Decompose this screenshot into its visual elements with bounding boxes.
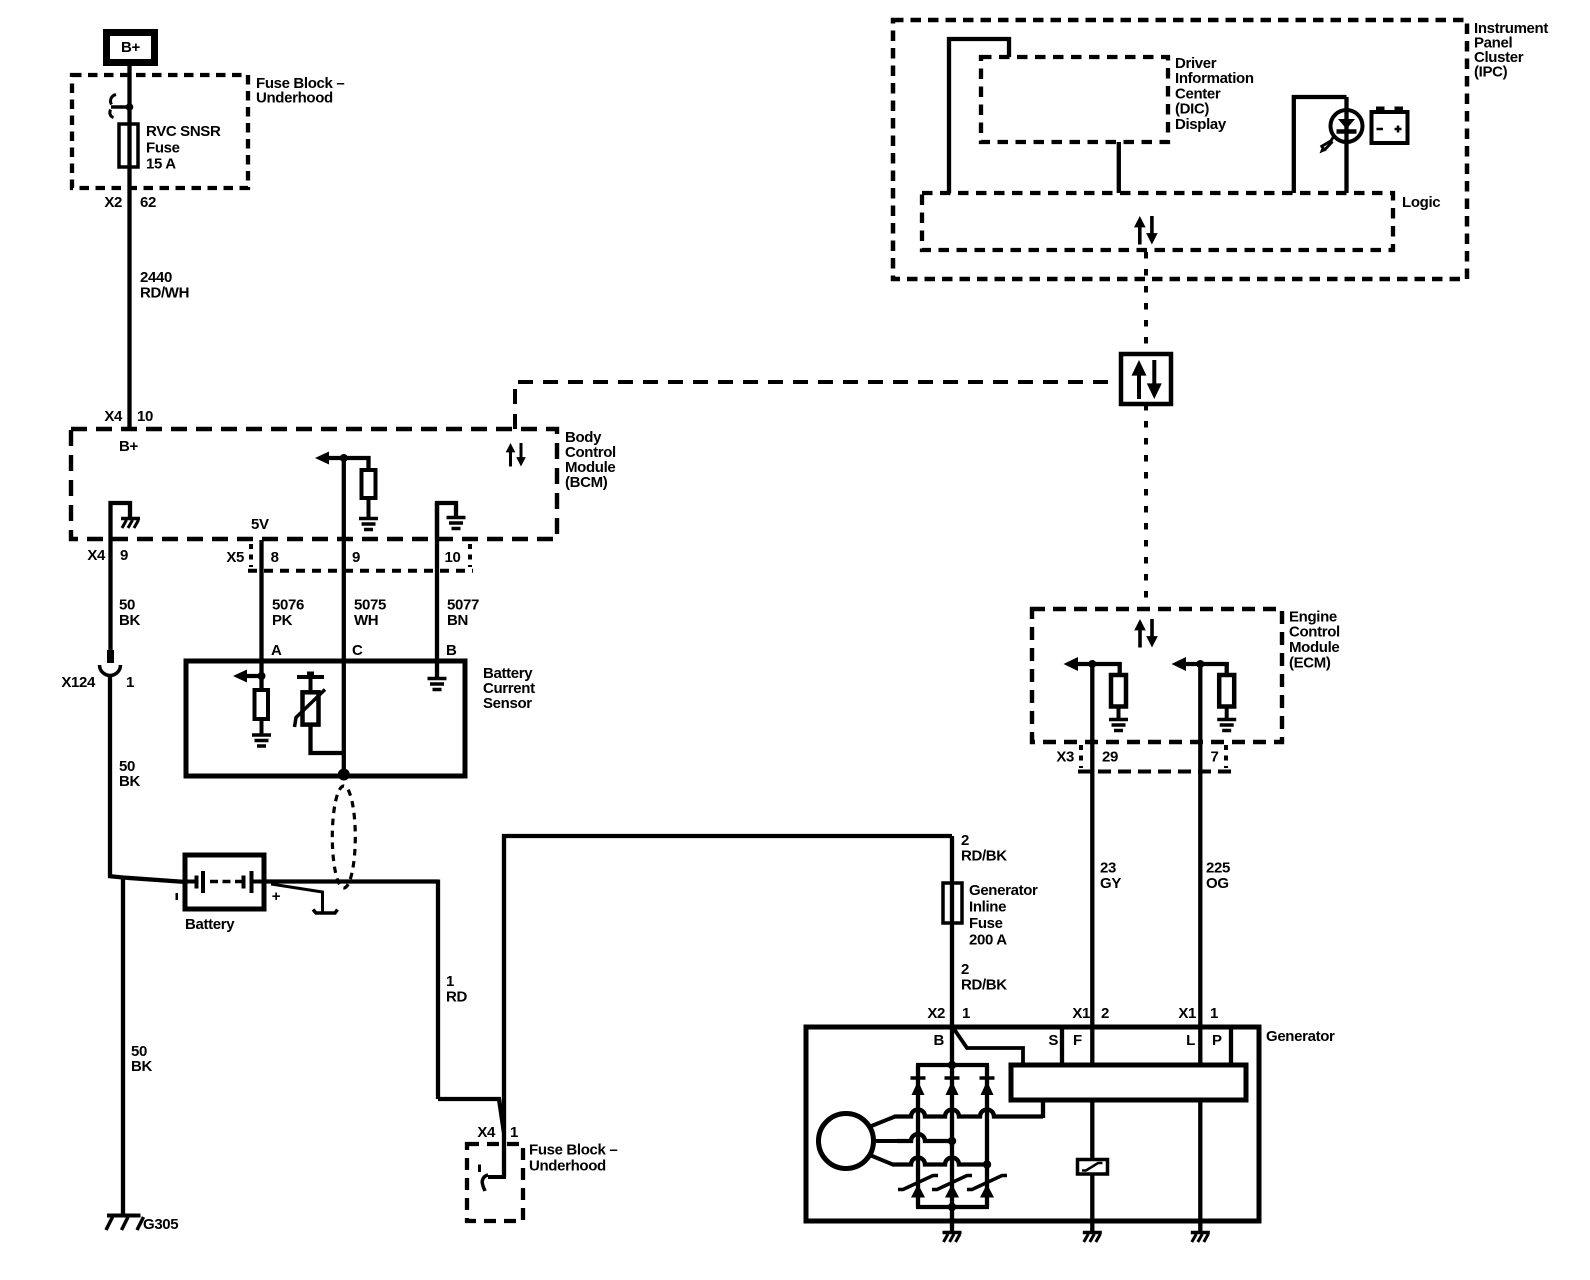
wire 50 BK X124 to battery: [108, 676, 112, 877]
lamp wire L through regulator: [1198, 1099, 1202, 1221]
svg-text:X2: X2: [927, 1005, 945, 1022]
svg-text:Battery: Battery: [185, 916, 235, 933]
clip symbol on RVC SNSR fuse feed: [111, 95, 116, 105]
LED diode triangle and bar: [1338, 119, 1355, 129]
rectifier top bus: [916, 1063, 989, 1067]
svg-text:Fuse: Fuse: [146, 139, 180, 156]
svg-text:RD/BK: RD/BK: [961, 847, 1007, 864]
svg-text:F: F: [1073, 1032, 1082, 1049]
svg-text:RVC SNSR: RVC SNSR: [146, 123, 221, 140]
svg-text:X2: X2: [104, 194, 122, 211]
ECM resistor 1: [1111, 675, 1126, 707]
field circuit ground: [1090, 1221, 1094, 1232]
data wire splice to ECM: [1144, 404, 1148, 607]
svg-text:Module: Module: [1289, 639, 1339, 656]
svg-text:2: 2: [961, 832, 969, 849]
svg-text:8: 8: [271, 549, 279, 566]
stator phase 3 winding: [893, 1158, 987, 1165]
svg-text:RD: RD: [446, 988, 467, 1005]
svg-text:Generator: Generator: [1266, 1028, 1335, 1045]
rectifier bridge verticals: [916, 1065, 920, 1207]
svg-text:RD/WH: RD/WH: [140, 284, 189, 301]
svg-text:B: B: [934, 1032, 945, 1049]
fuse RVC SNSR 15A: [119, 124, 138, 167]
svg-text:50: 50: [119, 596, 135, 613]
sensor resistor ground: [252, 733, 271, 737]
svg-text:C: C: [352, 642, 363, 659]
thermistor top bar: [297, 675, 324, 679]
stator phase 1 winding: [894, 1110, 1043, 1117]
svg-text:BN: BN: [447, 612, 468, 629]
sensor output arrow pin A: [240, 674, 262, 678]
svg-text:X4: X4: [87, 547, 106, 564]
svg-text:OG: OG: [1206, 875, 1229, 892]
svg-text:1: 1: [126, 674, 134, 691]
wire 5075 WH pin 9 to sensor C: [342, 456, 346, 661]
DIC display dashed box: [981, 57, 1168, 142]
stator phase 2 winding: [897, 1134, 952, 1141]
wire 50 BK X4-9 to X124: [108, 539, 112, 650]
fuse block underhood box 2: [467, 1144, 523, 1221]
svg-text:WH: WH: [354, 612, 378, 629]
connector X5 dotted box: [249, 544, 253, 567]
wire logic to DIC display: [949, 39, 1009, 193]
svg-text:1: 1: [962, 1005, 970, 1022]
svg-text:62: 62: [140, 194, 156, 211]
svg-text:200 A: 200 A: [969, 931, 1007, 948]
svg-text:+: +: [272, 888, 281, 905]
svg-text:L: L: [1186, 1032, 1195, 1049]
svg-text:2440: 2440: [140, 269, 172, 286]
ground G305: [107, 1214, 141, 1218]
wire 1 RD to fuse block: [438, 1099, 504, 1133]
svg-text:X4: X4: [104, 408, 123, 425]
svg-text:29: 29: [1102, 748, 1118, 765]
data wire IPC to splice: [1144, 252, 1148, 352]
svg-text:GY: GY: [1100, 875, 1121, 892]
fuse block underhood box: [72, 75, 248, 188]
IPC dashed box: [893, 20, 1467, 279]
wire 50 BK to G305: [121, 877, 125, 1216]
svg-text:Display: Display: [1175, 116, 1227, 133]
svg-text:RD/BK: RD/BK: [961, 976, 1007, 993]
field control diode symbol: [1078, 1160, 1108, 1175]
svg-text:1: 1: [1210, 1005, 1218, 1022]
rectifier avalanche diodes: [898, 1176, 938, 1190]
svg-text:X5: X5: [226, 549, 244, 566]
svg-text:B: B: [446, 642, 457, 659]
ECM pull-up circuit pin 29: [1076, 662, 1122, 666]
svg-text:5077: 5077: [447, 596, 479, 613]
junction battery cable through sensor: [338, 769, 350, 781]
rotor circle: [819, 1114, 874, 1169]
logic dashed box: [922, 193, 1393, 250]
svg-text:10: 10: [137, 408, 153, 425]
connector X3 dotted box: [1079, 745, 1083, 768]
BCM dashed box: [71, 429, 557, 539]
pin B link to regulator: [954, 1029, 1023, 1066]
ECM dashed box: [1032, 609, 1282, 742]
wire 5077 BN pin 10 to sensor B: [435, 503, 439, 661]
svg-text:X1: X1: [1072, 1005, 1090, 1022]
terminal hook inside fuse block: [488, 1175, 506, 1179]
sensor internal ground pin B: [435, 661, 439, 678]
svg-text:23: 23: [1100, 859, 1116, 876]
svg-text:9: 9: [352, 549, 360, 566]
thermistor to wire C: [311, 725, 344, 753]
svg-text:7: 7: [1211, 748, 1219, 765]
svg-text:B+: B+: [119, 438, 138, 455]
svg-text:9: 9: [120, 547, 128, 564]
wire 5076 PK pin 8 to sensor A: [259, 540, 263, 661]
rectifier bottom bus: [916, 1205, 989, 1209]
svg-text:2: 2: [961, 961, 969, 978]
wire logic to telltale LED: [1294, 97, 1347, 193]
thermistor body: [303, 692, 319, 724]
rectifier positive diodes: [911, 1076, 926, 1080]
svg-text:PK: PK: [272, 612, 293, 629]
sensor internal wire A: [259, 661, 263, 690]
svg-text:Underhood: Underhood: [256, 89, 333, 106]
pin P link to regulator: [1229, 1027, 1233, 1066]
thermistor diagonal: [295, 690, 326, 728]
svg-text:Underhood: Underhood: [529, 1157, 606, 1174]
sensor internal wire C: [342, 661, 346, 774]
battery negative label: [176, 893, 179, 900]
ECM resistor 2: [1219, 675, 1234, 707]
svg-text:BK: BK: [119, 612, 140, 629]
wire DIC to logic: [1117, 142, 1121, 193]
wire 2 RD/BK riser: [504, 836, 952, 1177]
svg-text:5076: 5076: [272, 596, 304, 613]
svg-text:1: 1: [446, 973, 454, 990]
svg-text:A: A: [271, 642, 282, 659]
BCM data arrows: [506, 443, 516, 452]
rotor to stator fan wires: [869, 1117, 895, 1128]
svg-text:(IPC): (IPC): [1474, 63, 1508, 80]
svg-text:2: 2: [1101, 1005, 1109, 1022]
svg-text:S: S: [1048, 1032, 1058, 1049]
svg-text:BK: BK: [119, 773, 140, 790]
svg-text:Generator: Generator: [969, 882, 1038, 899]
power symbol B+: [107, 33, 155, 63]
wire 225 OG: [1198, 664, 1202, 1066]
svg-text:225: 225: [1206, 859, 1230, 876]
svg-text:P: P: [1212, 1032, 1222, 1049]
svg-text:X124: X124: [61, 674, 96, 691]
svg-text:Fuse: Fuse: [969, 915, 1003, 932]
svg-text:15 A: 15 A: [146, 155, 176, 172]
connector X124 male-female symbol: [107, 650, 114, 663]
wire 2 RD/BK to generator: [950, 836, 954, 1065]
BCM internal ground pin X5-10: [437, 503, 456, 539]
svg-text:B+: B+: [121, 39, 140, 56]
field wire F through regulator: [1090, 1099, 1094, 1221]
regulator to stator link: [1041, 1100, 1045, 1118]
svg-text:X4: X4: [477, 1124, 496, 1141]
svg-text:10: 10: [445, 549, 461, 566]
generator box: [806, 1027, 1259, 1221]
sensor loop ellipse around battery cable: [332, 786, 355, 888]
ground below BCM resistor: [359, 517, 378, 521]
battery telltale icon: [1372, 112, 1408, 143]
svg-text:5V: 5V: [251, 516, 269, 533]
svg-text:Sensor: Sensor: [483, 695, 532, 712]
wire B+ to BCM: [127, 66, 131, 429]
battery cell plates: [186, 880, 195, 884]
svg-text:(ECM): (ECM): [1289, 654, 1331, 671]
wire 1 RD down: [436, 880, 440, 1100]
svg-text:5075: 5075: [354, 596, 386, 613]
BCM internal pull-up on pin 9: [327, 456, 371, 460]
pin S link to regulator: [1060, 1027, 1064, 1066]
svg-text:Inline: Inline: [969, 898, 1006, 915]
battery box: [185, 855, 264, 909]
data wire BCM to splice box: [515, 382, 1118, 429]
generator inline fuse 200A: [943, 883, 962, 923]
svg-text:1: 1: [510, 1124, 518, 1141]
LED telltale circle: [1331, 110, 1363, 142]
ECM pull-up circuit pin 7: [1184, 662, 1229, 666]
svg-text:Fuse Block –: Fuse Block –: [529, 1141, 617, 1158]
svg-text:X1: X1: [1178, 1005, 1196, 1022]
voltage regulator block: [1011, 1065, 1246, 1100]
ECM data arrows: [1134, 619, 1146, 630]
generator case ground wire: [950, 1207, 954, 1232]
svg-text:(BCM): (BCM): [565, 474, 608, 491]
battery current sensor box: [186, 661, 465, 776]
svg-text:BK: BK: [131, 1058, 152, 1075]
data splice box with arrows: [1121, 354, 1171, 404]
BCM internal ground pin X4-9: [111, 503, 131, 539]
ECM ground 2: [1217, 718, 1236, 722]
lamp circuit ground: [1198, 1221, 1202, 1232]
svg-text:X3: X3: [1056, 748, 1074, 765]
battery positive cable: [264, 879, 438, 883]
LED light emission arrow: [1324, 135, 1335, 151]
logic data arrows: [1134, 216, 1146, 227]
ECM ground 1: [1109, 718, 1128, 722]
wire to battery negative: [108, 876, 186, 882]
svg-text:G305: G305: [143, 1216, 178, 1233]
svg-text:Logic: Logic: [1402, 194, 1440, 211]
resistor in BCM: [362, 470, 376, 498]
sensor resistor: [255, 690, 269, 719]
battery positive body connection: [271, 884, 323, 912]
wire 23 GY: [1090, 664, 1094, 1066]
